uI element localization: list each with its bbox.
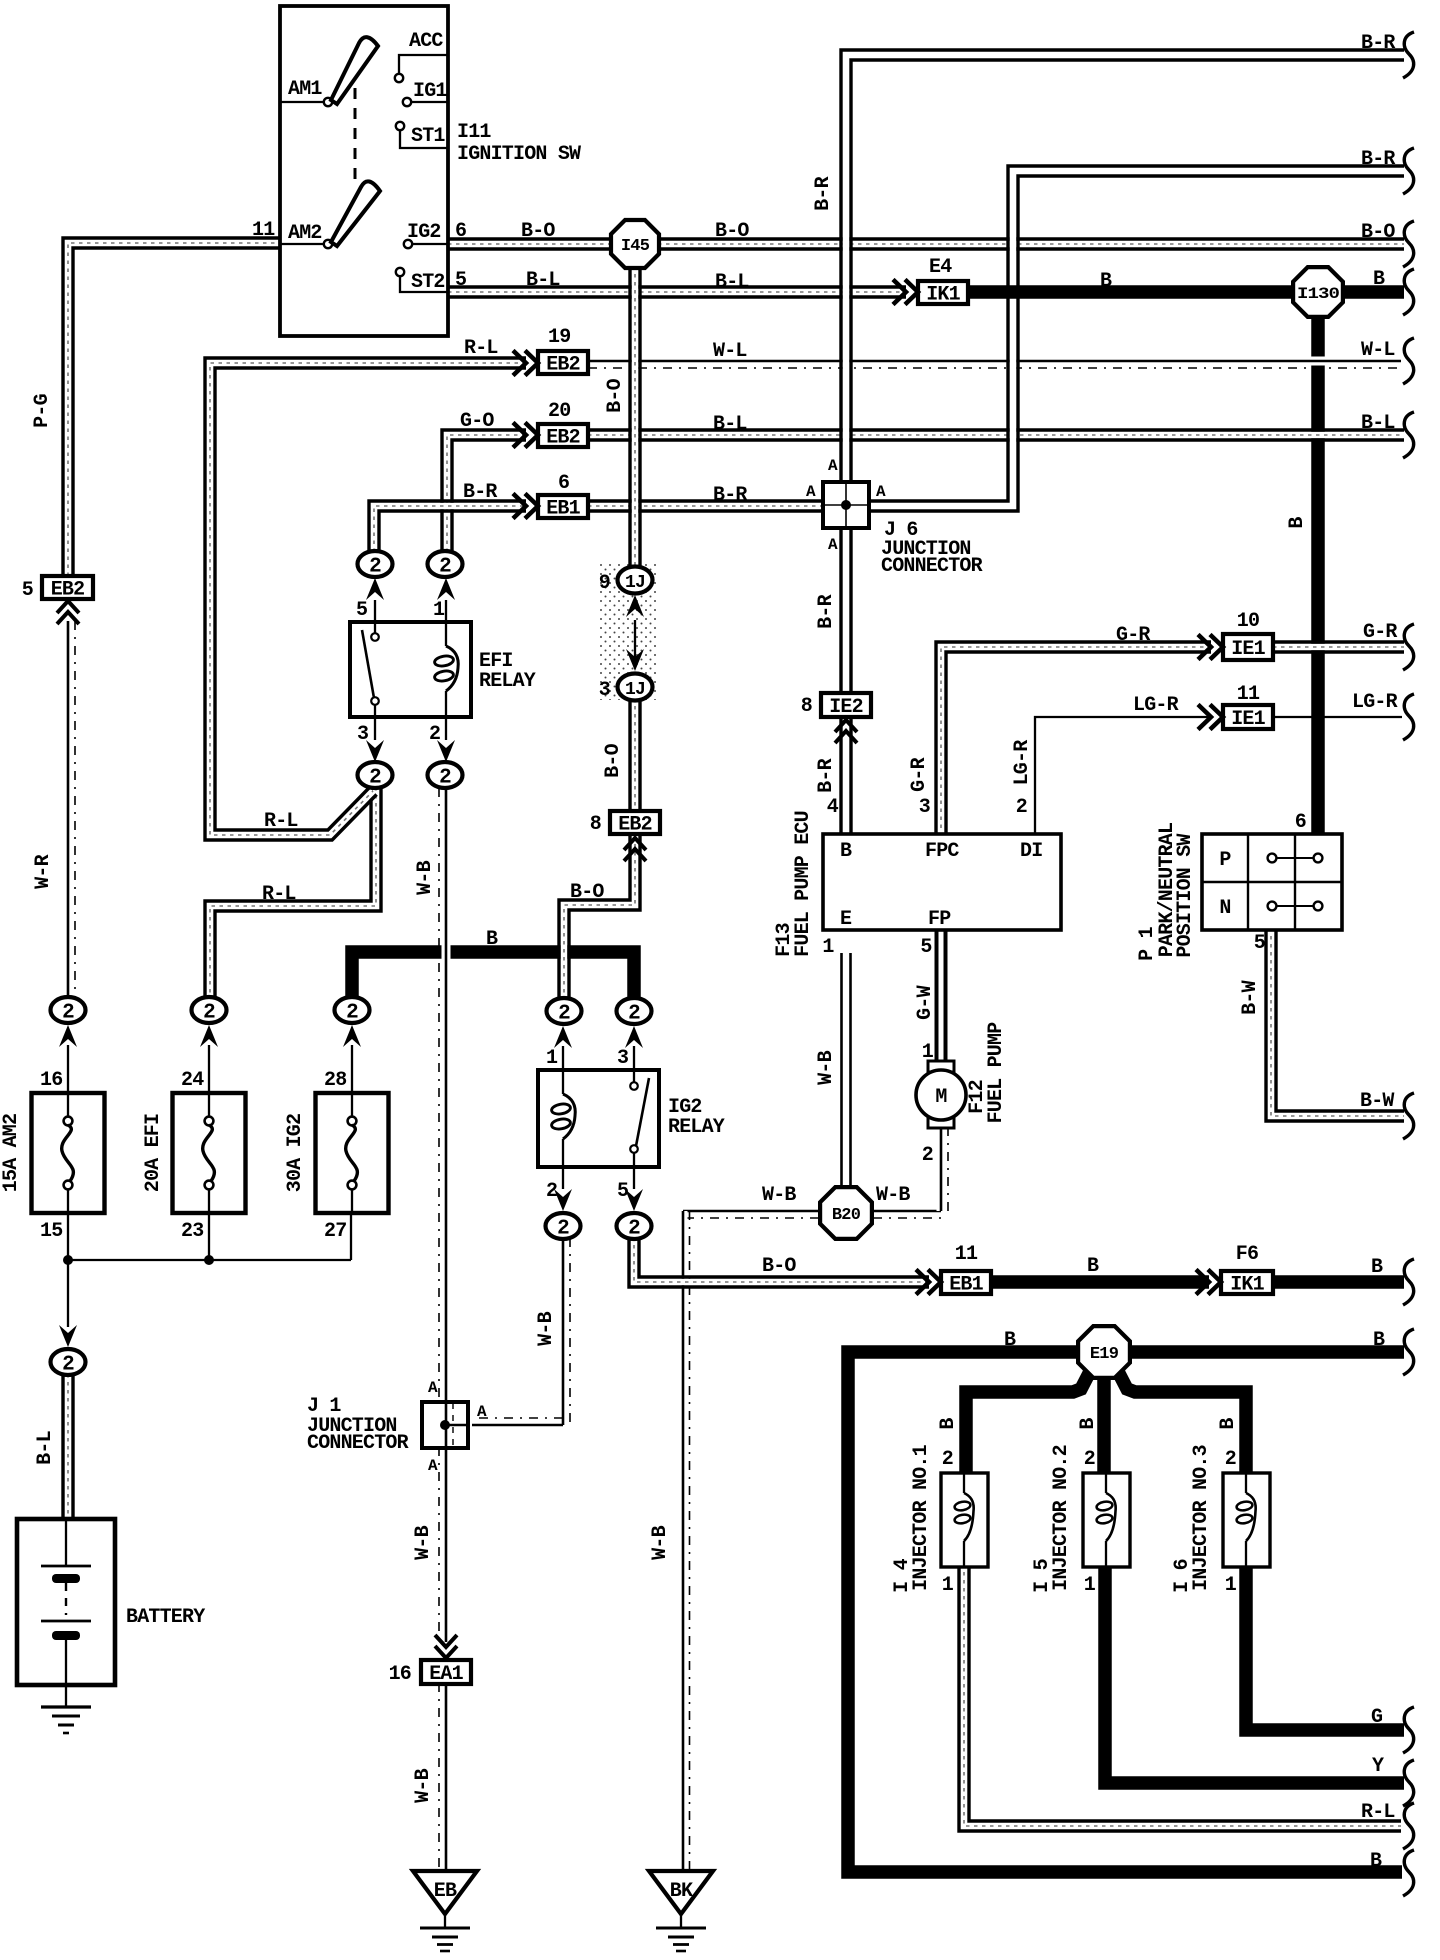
svg-text:B-O: B-O xyxy=(715,220,749,243)
svg-text:B: B xyxy=(1371,1256,1383,1279)
svg-text:EB1: EB1 xyxy=(546,498,580,521)
svg-text:5: 5 xyxy=(920,936,931,959)
svg-text:8: 8 xyxy=(801,695,812,718)
svg-text:AM2: AM2 xyxy=(288,222,322,245)
svg-text:B: B xyxy=(1286,517,1309,529)
svg-text:3: 3 xyxy=(599,679,610,702)
svg-text:19: 19 xyxy=(548,326,570,349)
svg-text:BATTERY: BATTERY xyxy=(126,1606,205,1629)
svg-text:LG-R: LG-R xyxy=(1352,691,1398,714)
svg-text:B: B xyxy=(840,840,852,863)
svg-text:23: 23 xyxy=(181,1220,203,1243)
svg-text:N: N xyxy=(1219,897,1230,920)
svg-text:CONNECTOR: CONNECTOR xyxy=(881,555,983,578)
svg-text:LG-R: LG-R xyxy=(1011,740,1034,786)
svg-text:2: 2 xyxy=(439,556,451,579)
svg-text:B-O: B-O xyxy=(602,743,625,777)
svg-text:2: 2 xyxy=(942,1448,953,1471)
svg-text:B: B xyxy=(1373,1329,1385,1352)
svg-text:3: 3 xyxy=(617,1047,628,1070)
svg-text:ACC: ACC xyxy=(409,30,443,53)
svg-text:30A IG2: 30A IG2 xyxy=(284,1114,307,1192)
svg-text:20: 20 xyxy=(548,400,570,423)
svg-text:6: 6 xyxy=(455,220,466,243)
svg-text:11: 11 xyxy=(955,1243,978,1266)
svg-text:W-B: W-B xyxy=(876,1184,910,1207)
svg-text:16: 16 xyxy=(40,1069,62,1092)
svg-text:3: 3 xyxy=(357,723,368,746)
svg-text:B: B xyxy=(486,928,498,951)
svg-text:R-L: R-L xyxy=(264,810,298,833)
svg-text:5: 5 xyxy=(1254,932,1265,955)
svg-text:B-R: B-R xyxy=(713,484,747,507)
svg-text:IG1: IG1 xyxy=(413,80,447,103)
svg-text:B: B xyxy=(937,1418,960,1430)
svg-text:2: 2 xyxy=(429,723,440,746)
svg-text:A: A xyxy=(828,536,838,554)
svg-text:I45: I45 xyxy=(621,237,650,256)
svg-text:E: E xyxy=(840,908,852,931)
svg-text:B-L: B-L xyxy=(1361,412,1395,435)
svg-text:27: 27 xyxy=(324,1220,346,1243)
svg-text:B20: B20 xyxy=(832,1206,861,1225)
svg-text:15A AM2: 15A AM2 xyxy=(0,1114,23,1192)
svg-text:POSITION SW: POSITION SW xyxy=(1174,834,1197,958)
svg-text:R-L: R-L xyxy=(464,337,498,360)
svg-text:B-W: B-W xyxy=(1360,1090,1394,1113)
svg-text:EB1: EB1 xyxy=(949,1274,983,1297)
svg-text:E4: E4 xyxy=(929,256,952,279)
svg-text:B-W: B-W xyxy=(1239,980,1262,1014)
svg-text:2: 2 xyxy=(346,1002,358,1025)
svg-text:2: 2 xyxy=(558,1003,570,1026)
svg-text:BK: BK xyxy=(670,1880,693,1903)
svg-text:B: B xyxy=(1100,270,1112,293)
svg-text:F6: F6 xyxy=(1236,1243,1258,1266)
svg-text:6: 6 xyxy=(558,472,569,495)
svg-text:2: 2 xyxy=(628,1218,640,1241)
svg-text:B-L: B-L xyxy=(715,271,749,294)
svg-text:1J: 1J xyxy=(625,573,645,593)
svg-text:ST2: ST2 xyxy=(411,271,445,294)
svg-text:I11: I11 xyxy=(457,121,491,144)
svg-text:5: 5 xyxy=(455,269,466,292)
svg-text:2: 2 xyxy=(439,767,451,790)
svg-text:2: 2 xyxy=(1225,1448,1236,1471)
svg-text:B: B xyxy=(1087,1255,1099,1278)
svg-text:A: A xyxy=(477,1403,487,1421)
svg-text:B-O: B-O xyxy=(521,220,555,243)
svg-text:W-L: W-L xyxy=(1361,339,1395,362)
svg-text:FPC: FPC xyxy=(925,840,959,863)
svg-text:G-R: G-R xyxy=(908,757,931,791)
svg-text:A: A xyxy=(428,1457,438,1475)
svg-text:5: 5 xyxy=(22,579,33,602)
svg-text:B: B xyxy=(1077,1418,1100,1430)
svg-text:G: G xyxy=(1371,1706,1383,1729)
svg-text:11: 11 xyxy=(252,219,275,242)
svg-text:M: M xyxy=(935,1086,947,1109)
svg-text:A: A xyxy=(806,483,816,501)
svg-text:B: B xyxy=(1373,268,1385,291)
svg-text:G-R: G-R xyxy=(1116,624,1150,647)
svg-text:W-R: W-R xyxy=(32,854,55,888)
svg-text:INJECTOR NO.1: INJECTOR NO.1 xyxy=(910,1444,933,1590)
svg-text:A: A xyxy=(876,483,886,501)
svg-text:2: 2 xyxy=(557,1218,569,1241)
svg-text:B-R: B-R xyxy=(463,481,497,504)
svg-text:EB2: EB2 xyxy=(546,427,580,450)
svg-text:5: 5 xyxy=(356,599,367,622)
svg-text:I130: I130 xyxy=(1297,285,1339,303)
svg-text:B-O: B-O xyxy=(604,378,627,412)
svg-text:P: P xyxy=(1219,849,1231,872)
svg-text:FUEL PUMP ECU: FUEL PUMP ECU xyxy=(792,811,815,957)
svg-text:2: 2 xyxy=(1084,1448,1095,1471)
svg-text:FUEL PUMP: FUEL PUMP xyxy=(985,1022,1008,1124)
svg-text:B: B xyxy=(1217,1418,1240,1430)
svg-text:16: 16 xyxy=(389,1663,411,1686)
svg-text:IGNITION SW: IGNITION SW xyxy=(457,143,581,166)
svg-text:8: 8 xyxy=(590,813,601,836)
svg-text:1: 1 xyxy=(922,1041,934,1064)
svg-text:W-B: W-B xyxy=(414,860,437,894)
svg-text:G-R: G-R xyxy=(1363,621,1397,644)
svg-text:B-L: B-L xyxy=(713,413,747,436)
svg-text:IK1: IK1 xyxy=(926,284,960,307)
svg-text:IG2: IG2 xyxy=(407,221,441,244)
svg-text:ST1: ST1 xyxy=(411,125,445,148)
svg-text:EB2: EB2 xyxy=(618,814,652,837)
svg-text:B: B xyxy=(1370,1850,1382,1873)
svg-text:15: 15 xyxy=(40,1220,62,1243)
svg-text:2: 2 xyxy=(922,1144,933,1167)
svg-text:EB2: EB2 xyxy=(51,579,85,602)
svg-text:DI: DI xyxy=(1020,840,1042,863)
svg-text:B-R: B-R xyxy=(812,176,835,210)
svg-text:Y: Y xyxy=(1372,1755,1384,1778)
svg-text:LG-R: LG-R xyxy=(1133,694,1179,717)
svg-text:B-R: B-R xyxy=(815,594,838,628)
svg-text:A: A xyxy=(428,1379,438,1397)
svg-text:1: 1 xyxy=(1225,1574,1237,1597)
svg-text:2: 2 xyxy=(628,1003,640,1026)
svg-text:28: 28 xyxy=(324,1069,346,1092)
svg-text:R-L: R-L xyxy=(262,883,296,906)
svg-text:2: 2 xyxy=(62,1354,74,1377)
svg-text:2: 2 xyxy=(62,1002,74,1025)
svg-text:1: 1 xyxy=(942,1574,954,1597)
svg-text:10: 10 xyxy=(1237,610,1259,633)
svg-text:1: 1 xyxy=(433,599,445,622)
svg-text:5: 5 xyxy=(617,1180,628,1203)
svg-text:B: B xyxy=(1004,1329,1016,1352)
svg-text:11: 11 xyxy=(1237,683,1260,706)
svg-text:B-O: B-O xyxy=(762,1255,796,1278)
svg-text:1: 1 xyxy=(822,936,834,959)
svg-text:IE2: IE2 xyxy=(829,696,863,719)
svg-text:FP: FP xyxy=(928,908,951,931)
svg-text:9: 9 xyxy=(599,572,610,595)
svg-text:2: 2 xyxy=(546,1180,557,1203)
svg-text:RELAY: RELAY xyxy=(479,670,536,693)
svg-text:CONNECTOR: CONNECTOR xyxy=(307,1432,409,1455)
svg-text:B-R: B-R xyxy=(1361,32,1395,55)
svg-text:EB: EB xyxy=(434,1880,457,1903)
svg-text:IE1: IE1 xyxy=(1231,708,1265,731)
svg-text:3: 3 xyxy=(919,796,930,819)
svg-text:P-G: P-G xyxy=(31,393,54,427)
svg-text:W-B: W-B xyxy=(412,1525,435,1559)
svg-text:W-L: W-L xyxy=(713,340,747,363)
svg-text:6: 6 xyxy=(1295,811,1306,834)
svg-text:24: 24 xyxy=(181,1069,204,1092)
svg-text:W-B: W-B xyxy=(412,1768,435,1802)
svg-text:A: A xyxy=(828,457,838,475)
svg-text:2: 2 xyxy=(203,1002,215,1025)
svg-text:B-O: B-O xyxy=(1361,221,1395,244)
svg-text:G-W: G-W xyxy=(914,985,937,1019)
svg-text:2: 2 xyxy=(369,767,381,790)
svg-text:W-B: W-B xyxy=(762,1184,796,1207)
svg-text:INJECTOR NO.3: INJECTOR NO.3 xyxy=(1190,1445,1213,1591)
svg-text:B-R: B-R xyxy=(815,758,838,792)
svg-text:IE1: IE1 xyxy=(1231,638,1265,661)
svg-text:W-B: W-B xyxy=(535,1311,558,1345)
svg-text:W-B: W-B xyxy=(815,1050,838,1084)
svg-text:B-R: B-R xyxy=(1361,148,1395,171)
svg-text:1J: 1J xyxy=(625,680,645,700)
svg-text:B-L: B-L xyxy=(34,1431,57,1465)
svg-text:AM1: AM1 xyxy=(288,78,322,101)
svg-text:2: 2 xyxy=(369,556,381,579)
svg-text:4: 4 xyxy=(827,796,839,819)
svg-text:EA1: EA1 xyxy=(429,1663,463,1686)
svg-text:W-B: W-B xyxy=(649,1525,672,1559)
svg-text:IK1: IK1 xyxy=(1230,1274,1264,1297)
svg-text:1: 1 xyxy=(546,1047,558,1070)
svg-text:E19: E19 xyxy=(1090,1345,1119,1364)
svg-text:EB2: EB2 xyxy=(546,354,580,377)
svg-text:G-O: G-O xyxy=(460,410,494,433)
svg-text:R-L: R-L xyxy=(1361,1801,1395,1824)
svg-text:B-O: B-O xyxy=(570,881,604,904)
svg-text:RELAY: RELAY xyxy=(668,1116,725,1139)
svg-text:1: 1 xyxy=(1084,1574,1096,1597)
svg-text:INJECTOR NO.2: INJECTOR NO.2 xyxy=(1050,1445,1073,1591)
svg-text:B-L: B-L xyxy=(526,269,560,292)
svg-text:20A EFI: 20A EFI xyxy=(142,1114,165,1192)
svg-text:2: 2 xyxy=(1016,796,1027,819)
